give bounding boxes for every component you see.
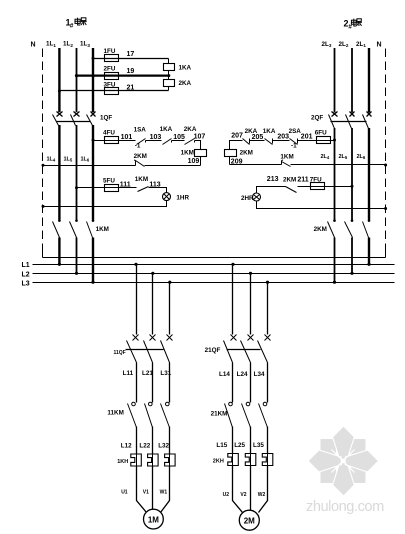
svg-text:105: 105	[173, 134, 185, 141]
svg-text:4FU: 4FU	[103, 130, 115, 137]
svg-text:2KM: 2KM	[314, 226, 327, 233]
svg-text:2QF: 2QF	[311, 115, 323, 122]
svg-text:2L4: 2L4	[321, 154, 330, 160]
contactor 21KM	[211, 402, 268, 427]
svg-text:1KH: 1KH	[117, 459, 128, 465]
node feeder1 tap L2	[151, 272, 154, 275]
wire L12	[136, 427, 138, 455]
wire 109	[200, 157, 202, 166]
svg-text:2SA: 2SA	[289, 128, 302, 135]
wire 21	[60, 90, 169, 92]
svg-text:2KA: 2KA	[179, 80, 192, 87]
wire hold branch to N	[291, 164, 386, 166]
svg-text:1L5: 1L5	[64, 156, 73, 162]
svg-text:2L6: 2L6	[357, 154, 366, 160]
contactor 2KM main contacts	[314, 219, 371, 237]
svg-text:101: 101	[121, 134, 133, 141]
svg-text:L14: L14	[219, 371, 230, 378]
node on N for hold branch	[42, 164, 45, 167]
fuse 5FU	[105, 185, 119, 192]
svg-text:L2: L2	[22, 271, 30, 278]
svg-text:L11: L11	[123, 370, 134, 377]
overload 1KH	[117, 454, 175, 467]
wire 1L1 upper	[58, 48, 60, 112]
svg-text:2M: 2M	[244, 516, 255, 525]
wire between coils	[168, 71, 170, 80]
glyph dian	[75, 18, 80, 25]
svg-text:V2: V2	[240, 492, 246, 498]
svg-text:U2: U2	[223, 492, 230, 498]
svg-text:2KA: 2KA	[245, 128, 258, 135]
wire 2L1 to bus L1	[368, 238, 370, 265]
contactor 11KM	[107, 402, 169, 427]
glyph dian	[351, 19, 356, 26]
node feeder1 tap L3	[168, 281, 171, 284]
fuse 7FU	[311, 183, 325, 190]
wire 1L1 below breaker	[58, 125, 60, 220]
svg-text:1KM: 1KM	[280, 153, 293, 160]
wire feeder1 phase C down	[169, 283, 171, 335]
motor 2M	[239, 510, 259, 530]
svg-text:2KM: 2KM	[240, 150, 253, 157]
bus N rail	[43, 257, 386, 259]
svg-text:111: 111	[120, 181, 131, 188]
wire L32	[169, 427, 171, 455]
contactor coil 2KM	[225, 150, 237, 157]
fuse 3FU	[105, 88, 119, 95]
relay coil 2KA	[164, 80, 175, 87]
svg-text:3FU: 3FU	[104, 81, 116, 88]
svg-text:21QF: 21QF	[205, 347, 221, 354]
svg-text:L1: L1	[22, 262, 30, 269]
wire 19	[77, 74, 169, 76]
lamp 2HR	[241, 193, 261, 202]
node control tap on 1L3	[92, 139, 95, 142]
wire 209	[229, 157, 231, 165]
wire 113	[149, 188, 167, 193]
svg-text:2KA: 2KA	[184, 126, 197, 133]
node 1L3 tap to 1FU	[92, 57, 95, 60]
wire 203	[273, 140, 290, 142]
svg-text:1SA: 1SA	[134, 127, 147, 134]
svg-text:L21: L21	[142, 370, 153, 377]
wire 103	[146, 140, 162, 142]
contact 1KM lamp	[135, 176, 149, 192]
svg-text:L32: L32	[158, 443, 169, 450]
svg-text:19: 19	[127, 68, 135, 75]
breaker 21QF	[205, 335, 271, 363]
contactor coil 1KM	[195, 150, 207, 157]
svg-text:1QF: 1QF	[100, 115, 112, 122]
svg-text:113: 113	[149, 181, 160, 188]
wire 1L2 upper	[76, 48, 78, 112]
wire 213	[257, 187, 286, 193]
contact 2KM NC interlock	[134, 153, 147, 167]
svg-text:2KM: 2KM	[283, 176, 296, 183]
title 1# pump	[66, 18, 87, 30]
svg-text:-1: -1	[135, 143, 141, 150]
wire feeder2 phase A down	[232, 265, 234, 335]
svg-text:L34: L34	[254, 371, 265, 378]
overload 2KH	[213, 454, 273, 466]
wire feeder2 phase C down	[267, 283, 269, 335]
svg-text:2FU: 2FU	[104, 65, 116, 72]
wire L25	[250, 427, 252, 454]
svg-text:2L5: 2L5	[339, 154, 348, 160]
wire 2L2 to bus L2	[351, 238, 353, 274]
svg-text:2KM: 2KM	[134, 153, 147, 160]
svg-text:L12: L12	[121, 443, 132, 450]
watermark logo	[308, 426, 379, 496]
node hold branch on N (right)	[384, 164, 387, 167]
wire L21	[152, 363, 154, 403]
wire 1L2 below breaker	[76, 125, 78, 220]
wire V1	[152, 467, 154, 510]
wire hold branch right	[145, 165, 201, 167]
node lamp return on N	[42, 205, 45, 208]
breaker 1QF	[53, 112, 113, 126]
svg-text:L3: L3	[22, 280, 30, 287]
svg-text:21KM: 21KM	[211, 411, 228, 418]
contact 2KM lamp	[283, 176, 297, 192]
wire W1	[161, 467, 170, 513]
wire hold branch right-coil side	[230, 164, 282, 166]
wire hold branch left	[43, 165, 136, 167]
contact 2KA (right)	[243, 128, 258, 145]
wire 101	[93, 140, 136, 142]
wire L11	[136, 363, 138, 403]
svg-text:211: 211	[297, 176, 308, 183]
wire feeder1 phase A down	[136, 265, 138, 335]
wire 111	[77, 187, 137, 189]
node lamp tap on 2L2	[351, 185, 354, 188]
node feeder1 tap L1	[134, 263, 137, 266]
wire 1L3 upper	[92, 48, 94, 112]
svg-text:205: 205	[252, 134, 264, 141]
switch 1SA contact	[134, 127, 147, 150]
glyph beng	[81, 18, 87, 25]
wire 1L1 to bus L1	[58, 238, 60, 265]
svg-text:109: 109	[188, 158, 200, 165]
node 1L2 tap to 2FU	[75, 74, 78, 77]
svg-text:N: N	[31, 42, 36, 49]
wire L14	[232, 363, 234, 403]
breaker 2QF	[311, 112, 372, 129]
wire 2L1 below breaker	[368, 128, 370, 220]
svg-text:1HR: 1HR	[176, 194, 189, 201]
wire N dashed (left)	[42, 49, 44, 250]
wire 1L3 below breaker	[92, 125, 94, 220]
svg-text:6FU: 6FU	[315, 130, 327, 137]
wire 2L3 below breaker	[334, 128, 336, 220]
breaker 11QF	[114, 335, 173, 363]
svg-text:U1: U1	[121, 490, 128, 496]
wire 1L2 to bus L2	[76, 238, 78, 274]
svg-text:L15: L15	[216, 442, 227, 449]
wire L15	[232, 427, 234, 454]
fuse 4FU	[105, 137, 119, 144]
wire 2L1 upper	[368, 48, 370, 113]
node lamp tap on 1L2	[75, 186, 78, 189]
wire V2	[250, 466, 252, 511]
wire lamp return right	[257, 201, 386, 209]
wire L22	[152, 427, 154, 455]
wire 2L2 below breaker	[351, 128, 353, 220]
svg-text:107: 107	[194, 134, 206, 141]
node lamp return on N (right)	[384, 207, 387, 210]
svg-text:21: 21	[127, 85, 135, 92]
svg-text:1M: 1M	[148, 515, 159, 524]
svg-text:2KH: 2KH	[213, 459, 224, 465]
wire 17 drop	[168, 59, 170, 64]
motor 1M	[144, 509, 164, 529]
glyph beng	[356, 19, 362, 26]
wire lamp return	[43, 201, 167, 207]
wire 211	[298, 186, 353, 188]
svg-text:L35: L35	[253, 442, 264, 449]
relay coil 1KA	[164, 64, 175, 71]
svg-text:L24: L24	[237, 371, 248, 378]
svg-text:L22: L22	[139, 443, 150, 450]
svg-text:103: 103	[150, 134, 162, 141]
wire 21 rise	[168, 87, 170, 91]
svg-text:W1: W1	[160, 490, 168, 496]
wire L35	[267, 427, 269, 454]
node control tap on 2L3	[333, 139, 336, 142]
contact 2KA	[184, 126, 197, 145]
wire 2L3 upper	[334, 48, 336, 113]
node at 1KA/2KA junction	[167, 74, 170, 77]
svg-text:1FU: 1FU	[104, 48, 116, 55]
svg-text:zhulong.com: zhulong.com	[306, 499, 384, 515]
svg-text:213: 213	[267, 176, 279, 183]
svg-text:1KM: 1KM	[96, 226, 109, 233]
wire 107	[195, 141, 201, 150]
svg-text:L25: L25	[234, 442, 245, 449]
node feeder2 tap L3	[266, 281, 269, 284]
svg-text:V1: V1	[143, 490, 149, 496]
svg-text:11QF: 11QF	[114, 350, 126, 356]
svg-text:N: N	[377, 42, 382, 49]
svg-text:1KA: 1KA	[263, 128, 276, 135]
contact 1KM hold	[280, 153, 293, 166]
contact 1KA	[160, 126, 173, 145]
lamp 1HR	[163, 193, 190, 202]
fuse 6FU	[317, 137, 331, 144]
svg-text:203: 203	[277, 134, 289, 141]
wire L31	[169, 363, 171, 403]
wire 17	[93, 58, 169, 60]
fuse 1FU	[105, 55, 119, 62]
svg-text:1KA: 1KA	[160, 126, 173, 133]
contactor 1KM main contacts	[53, 219, 109, 237]
wire L34	[267, 363, 269, 403]
svg-text:17: 17	[127, 51, 135, 58]
node feeder2 tap L2	[249, 272, 252, 275]
wire U1	[137, 467, 147, 513]
svg-text:11KM: 11KM	[107, 410, 123, 417]
wire L24	[250, 363, 252, 403]
svg-text:1KA: 1KA	[179, 64, 192, 71]
wire W2	[259, 466, 268, 513]
svg-text:L31: L31	[160, 370, 171, 377]
wire 207	[230, 141, 243, 150]
wire 2L3 to bus L3	[334, 238, 336, 283]
wire 201	[298, 140, 335, 142]
fuse 2FU	[105, 73, 119, 80]
svg-text:7FU: 7FU	[310, 176, 322, 183]
svg-text:2HR: 2HR	[241, 195, 254, 202]
wire N dashed (right)	[385, 49, 387, 250]
svg-text:1KM: 1KM	[135, 176, 148, 183]
node 1L1 tap to 3FU	[58, 90, 61, 93]
wire 1L3 to bus L3	[92, 238, 94, 283]
svg-text:207: 207	[231, 132, 243, 139]
svg-text:1L6: 1L6	[81, 156, 90, 162]
wire feeder1 phase B down	[152, 274, 154, 335]
wire 205	[250, 140, 265, 142]
contact 1KA (right)	[263, 128, 276, 145]
wire 105	[172, 140, 185, 142]
node feeder2 tap L1	[231, 263, 234, 266]
svg-text:-1: -1	[291, 143, 297, 150]
wire feeder2 phase B down	[250, 274, 252, 335]
wire U2	[233, 466, 243, 513]
switch 2SA contact	[289, 128, 302, 150]
wire 2L2 upper	[351, 48, 353, 113]
svg-text:5FU: 5FU	[103, 177, 115, 184]
svg-text:#: #	[70, 23, 74, 30]
svg-text:1KM: 1KM	[181, 150, 194, 157]
svg-text:W2: W2	[258, 492, 266, 498]
svg-text:201: 201	[301, 134, 313, 141]
title 2# pump	[344, 19, 362, 31]
svg-text:1L4: 1L4	[47, 156, 56, 162]
